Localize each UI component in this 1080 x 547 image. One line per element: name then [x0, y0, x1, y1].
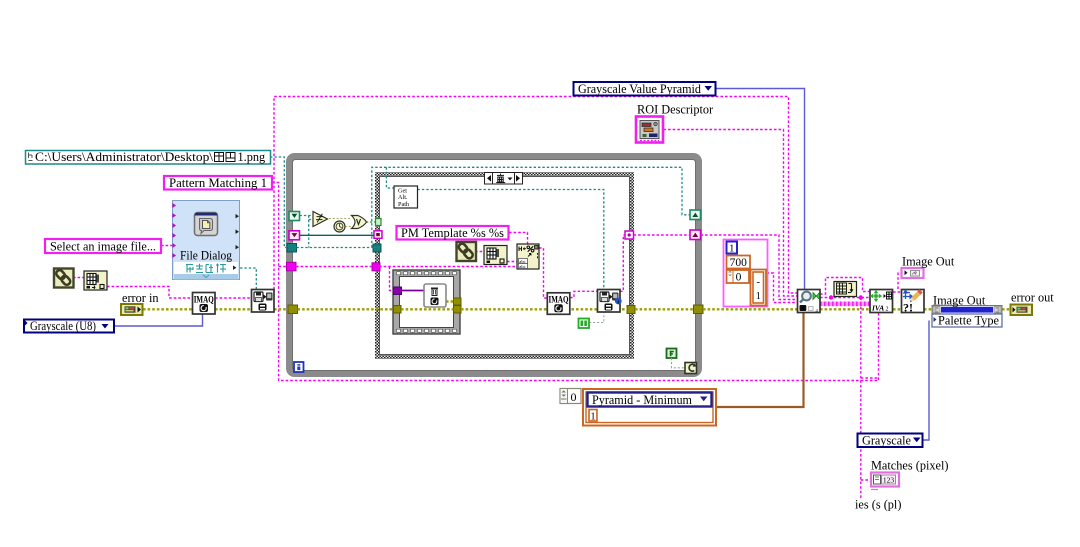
svg-text:C:\Users\Administrator\Desktop: C:\Users\Administrator\Desktop\ [35, 150, 214, 164]
svg-text:700: 700 [730, 257, 748, 269]
svg-text:PM Template %s %s: PM Template %s %s [401, 226, 504, 240]
svg-text:Grayscale: Grayscale [862, 434, 911, 448]
svg-text:1: 1 [590, 411, 595, 422]
svg-text:1: 1 [729, 243, 735, 255]
svg-text:abc: abc [519, 264, 525, 269]
svg-text:Grayscale (U8): Grayscale (U8) [30, 319, 96, 333]
svg-text:Path: Path [398, 201, 410, 208]
svg-text:Pyramid - Minimum: Pyramid - Minimum [592, 393, 692, 407]
svg-text:0: 0 [736, 272, 742, 284]
svg-text:Image Out: Image Out [902, 255, 955, 269]
svg-text:Pattern Matching 1: Pattern Matching 1 [169, 176, 267, 190]
svg-text:0: 0 [571, 390, 577, 404]
svg-text:Palette Type: Palette Type [938, 314, 999, 328]
svg-text:1: 1 [756, 291, 761, 302]
svg-text:ROI Descriptor: ROI Descriptor [637, 103, 713, 117]
svg-text:Matches (pixel): Matches (pixel) [871, 459, 949, 473]
svg-text:File Dialog: File Dialog [180, 249, 232, 263]
svg-text:1.png: 1.png [238, 150, 266, 164]
svg-text:IVA: IVA [871, 304, 884, 313]
svg-text:123: 123 [883, 475, 895, 484]
svg-text:Image Out: Image Out [933, 294, 986, 308]
svg-text:Grayscale Value Pyramid: Grayscale Value Pyramid [578, 82, 702, 96]
svg-text:?!: ?! [903, 301, 913, 315]
svg-text:IMAQ: IMAQ [194, 294, 214, 304]
svg-text:error out: error out [1011, 291, 1054, 305]
svg-text:error in: error in [122, 291, 159, 305]
svg-text:ies (s (pl): ies (s (pl) [855, 498, 901, 512]
svg-text:2: 2 [886, 307, 889, 313]
svg-text:IMAQ: IMAQ [549, 295, 569, 305]
svg-text:S: S [801, 306, 804, 312]
svg-text:-: - [756, 277, 760, 288]
svg-text:Select an image file...: Select an image file... [50, 239, 156, 253]
